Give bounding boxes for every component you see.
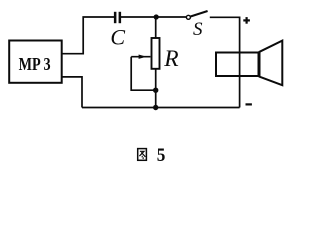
caption: character 图 (drawn) [138,149,147,161]
switch S [186,11,207,19]
svg-text:MP 3: MP 3 [19,54,51,74]
wire: node A to switch [156,16,187,18]
wire: MP3 top stub up to top rail and to capacitor [62,17,114,54]
speaker (loudspeaker) body [216,53,259,77]
wire: resistor bottom through node B to bottom rail [155,69,157,108]
resistor R (rheostat body) [152,38,160,69]
node A (junction dot at top of resistor branch) [154,14,159,19]
svg-text:R: R [163,46,178,72]
wire: bottom rail [82,107,240,109]
wiper arrow of rheostat R [131,55,150,59]
capacitor C [114,12,121,23]
svg-text:C: C [110,24,125,49]
label + (speaker positive terminal) [243,17,250,24]
wire: MP3 bottom stub down to bottom rail [62,77,82,108]
svg-text:S: S [193,19,203,40]
node B (wiper return junction below resistor) [153,88,158,93]
node C2 (junction on bottom rail) [153,105,158,110]
wire: node A down to resistor top [155,17,157,38]
wire: switch to top-right corner and down to speaker / bottom rail [210,17,240,107]
MP3 player box [9,41,62,83]
label - (speaker negative terminal) [246,103,252,105]
svg-text:5: 5 [157,146,166,166]
wire: wiper return loop to node B [131,57,156,90]
speaker horn [260,41,283,86]
wire: capacitor to node A [121,16,156,18]
